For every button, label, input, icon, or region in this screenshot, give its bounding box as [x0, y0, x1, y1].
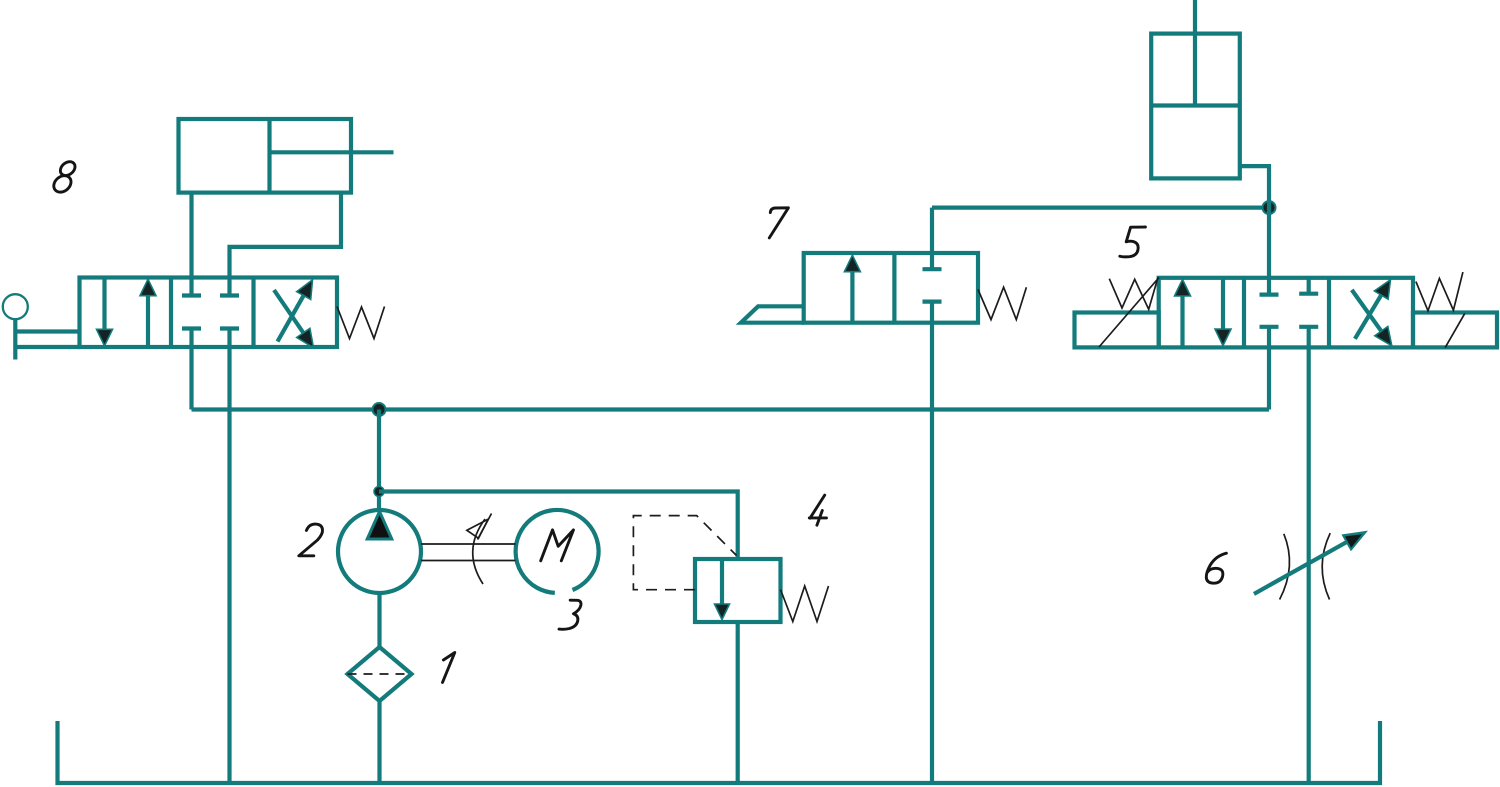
cylinder (top-left) piston	[267, 119, 271, 193]
wire valve V8 bottom-left port	[189, 329, 193, 410]
valve V7 blocked port bottom	[923, 300, 942, 304]
tank return line (bottom)	[58, 721, 1381, 783]
filter F1 diamond	[348, 647, 412, 701]
cylinder (top-right) piston	[1151, 103, 1240, 107]
valve V5 cross arrow 1	[1355, 295, 1382, 339]
valve V8 cross arrow 1	[278, 296, 304, 342]
cylinder (top-right) rod	[1193, 0, 1197, 106]
label 3	[559, 600, 581, 629]
label 8	[58, 159, 78, 179]
valve V7 blocked port top	[923, 267, 942, 271]
wire branch to relief valve	[379, 492, 738, 560]
wire cylinder port	[1240, 166, 1269, 295]
valve V8 blocked port top-right	[220, 293, 239, 297]
motor M1 circle	[516, 510, 599, 593]
label 4	[809, 495, 826, 525]
wire valve V5 bottom-left port to pressure line	[1267, 327, 1271, 410]
pump P1 circle	[338, 510, 421, 593]
wire valve V5 bottom-right port to throttle	[1307, 327, 1311, 783]
throttle V6 left arc	[1280, 534, 1290, 600]
valve V5 blocked port bottom-left	[1260, 325, 1279, 329]
node junction relief branch	[374, 487, 384, 497]
label 1	[443, 653, 455, 683]
valve V8 up-arrow	[146, 292, 150, 347]
valve V5 left solenoid slash	[1099, 278, 1159, 348]
valve V7 body	[804, 253, 978, 323]
wire cylinder left port to valve 8	[189, 193, 193, 296]
valve V5 right solenoid box	[1413, 313, 1497, 348]
valve V5 left solenoid box	[1075, 313, 1159, 348]
valve V8 lever link bottom	[15, 345, 79, 349]
valve V5 right spring	[1416, 272, 1463, 311]
valve V5 left spring	[1109, 277, 1158, 309]
valve V8 blocked port bottom-left	[182, 326, 201, 330]
valve V5 body	[1159, 278, 1413, 348]
valve V7 up-arrow	[850, 268, 854, 323]
pressure line P horizontal	[192, 407, 1270, 411]
wire pump suction	[377, 593, 381, 648]
relief valve V4 body	[695, 559, 781, 622]
valve V7 tappet actuator	[741, 306, 804, 322]
filter F1 element (dashed)	[348, 673, 412, 675]
relief valve V4 flow arrow	[720, 559, 724, 605]
wire relief valve to tank	[736, 622, 740, 783]
valve V5 cross arrow 2	[1352, 290, 1383, 333]
valve V8 down-arrow	[102, 278, 106, 334]
valve V7 position divider	[892, 253, 896, 323]
valve V5 blocked port bottom-right	[1299, 325, 1318, 329]
cylinder (top-left) rod	[268, 150, 394, 154]
wire valve V7 top port	[930, 208, 934, 270]
valve V8 body	[80, 278, 338, 348]
label 5	[1120, 227, 1146, 257]
valve V8 position dividers	[169, 278, 173, 348]
wire valve V7 bottom port to tank	[930, 302, 934, 783]
valve V8 blocked port bottom-right	[220, 326, 239, 330]
valve V8 lever stem	[13, 320, 17, 360]
wire valve V8 bottom-right port to tank	[227, 329, 231, 784]
wire control line horizontal	[932, 206, 1269, 210]
valve V5 up-arrow	[1180, 292, 1184, 347]
valve V5 position dividers	[1242, 278, 1246, 348]
relief valve V4 pilot line (dashed)	[633, 516, 736, 590]
cylinder (top-left) body	[179, 119, 352, 193]
rotation arrowhead	[467, 519, 488, 538]
valve V7 spring	[978, 287, 1026, 319]
pump P1 flow triangle	[367, 512, 392, 540]
valve V8 lever knob	[3, 294, 28, 319]
wire filter to tank	[377, 701, 381, 783]
label 2	[299, 524, 323, 556]
motor shaft lines	[421, 543, 516, 545]
label 7	[769, 208, 788, 238]
valve V8 cross arrow 2	[274, 290, 305, 335]
wire cylinder right port to valve 8	[230, 193, 342, 296]
valve V5 down-arrow	[1221, 278, 1225, 333]
valve V5 right solenoid slash	[1445, 313, 1465, 347]
node junction pump riser	[373, 403, 386, 416]
throttle V6 right arc	[1322, 533, 1330, 599]
valve V5 blocked port top-right	[1299, 292, 1318, 296]
label 6	[1206, 553, 1226, 583]
throttle V6 adjust arrow	[1254, 541, 1348, 594]
wire pump to junction	[377, 410, 381, 511]
relief valve V4 spring	[781, 586, 829, 622]
motor M1 letter M	[541, 530, 574, 561]
valve V8 spring	[337, 307, 385, 339]
node junction control line	[1263, 201, 1276, 214]
rotation arrow arc	[473, 519, 485, 584]
cylinder (top-right) body	[1151, 34, 1240, 179]
valve V5 blocked port top-left	[1260, 293, 1279, 297]
valve V8 lever link top	[15, 329, 79, 333]
valve V8 blocked port top-left	[182, 293, 201, 297]
